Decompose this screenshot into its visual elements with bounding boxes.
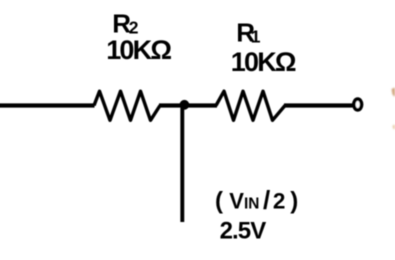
clipped orange annotation mark upper right [392, 88, 395, 98]
resistor R1 [216, 91, 285, 120]
svg-text:10KΩ: 10KΩ [231, 47, 296, 77]
svg-text:10KΩ: 10KΩ [106, 35, 171, 65]
svg-text:(VIN/2): (VIN/2) [215, 185, 298, 215]
svg-text:2.5V: 2.5V [220, 218, 267, 245]
svg-text:R2: R2 [112, 9, 138, 39]
clipped orange annotation mark lower right [393, 125, 395, 130]
wire left input segment [0, 103, 95, 107]
node junction dot [180, 100, 190, 110]
wire middle segment [159, 103, 217, 107]
output terminal (open circle) [354, 99, 362, 110]
wire right output segment [284, 103, 353, 107]
svg-text:R1: R1 [236, 18, 261, 48]
wire vertical to divider tap [180, 105, 184, 222]
resistor R2 [94, 91, 160, 120]
